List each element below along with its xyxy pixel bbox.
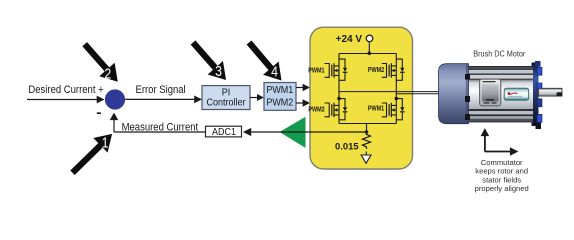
- svg-text:PWM1: PWM1: [308, 67, 325, 75]
- svg-text:Commutator: Commutator: [481, 158, 523, 167]
- svg-text:Brush DC Motor: Brush DC Motor: [473, 49, 525, 58]
- svg-text:ADC1: ADC1: [212, 127, 236, 139]
- svg-text:4: 4: [271, 63, 278, 79]
- svg-text:PWM2: PWM2: [266, 97, 293, 109]
- svg-text:stator fields: stator fields: [482, 175, 521, 184]
- svg-text:PWM1: PWM1: [368, 105, 385, 113]
- svg-text:Controller: Controller: [207, 97, 246, 109]
- svg-text:PWM1: PWM1: [266, 85, 293, 97]
- svg-text:1: 1: [102, 134, 109, 150]
- svg-text:3: 3: [215, 63, 222, 79]
- svg-text:0.015: 0.015: [335, 141, 358, 152]
- svg-text:Error Signal: Error Signal: [136, 85, 186, 97]
- svg-text:PWM2: PWM2: [368, 66, 385, 74]
- svg-text:PWM2: PWM2: [308, 106, 325, 114]
- svg-text:properly aligned: properly aligned: [475, 184, 529, 193]
- svg-text:+24 V: +24 V: [336, 34, 363, 45]
- svg-text:keeps rotor and: keeps rotor and: [475, 167, 528, 176]
- svg-text:Desired Current +: Desired Current +: [28, 85, 103, 97]
- svg-text:2: 2: [104, 65, 111, 81]
